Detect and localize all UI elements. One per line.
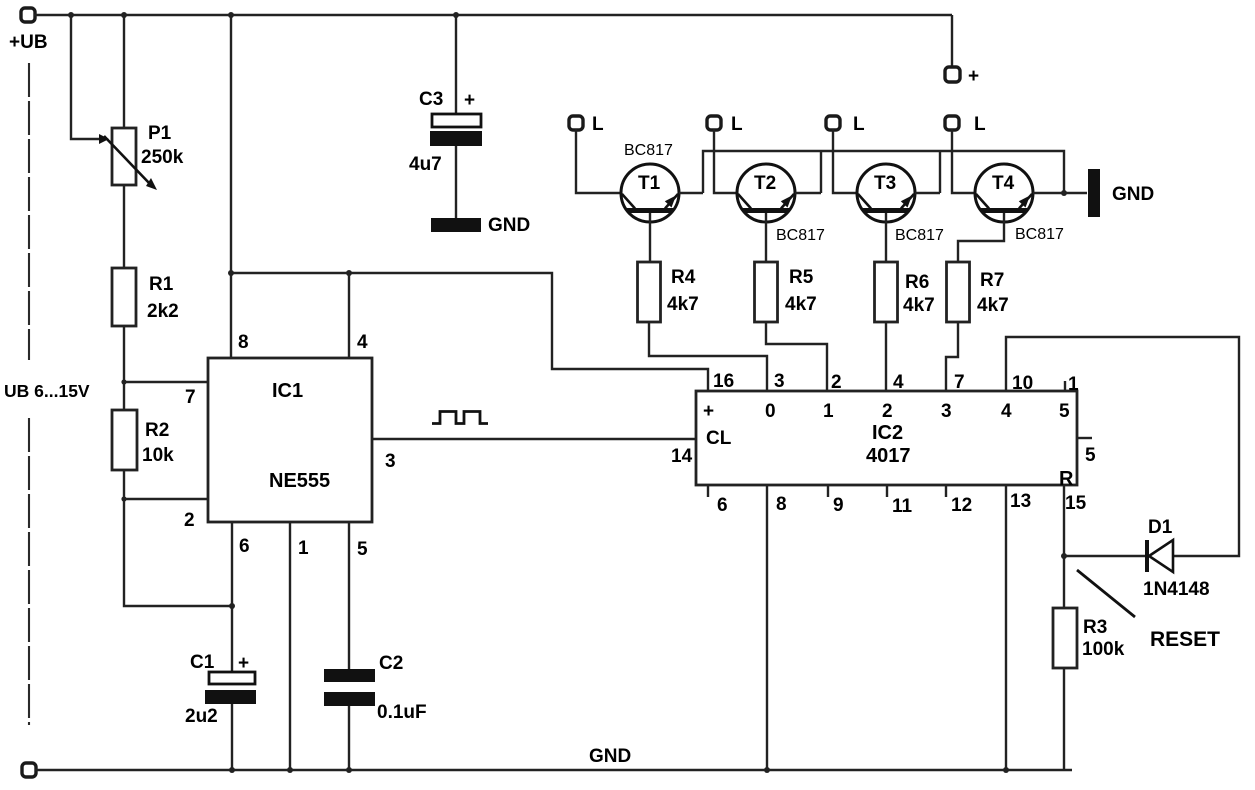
wire supply to IC2 pin 16	[228, 270, 708, 391]
terminal L3	[826, 114, 865, 135]
svg-text:BC817: BC817	[1015, 226, 1064, 243]
svg-text:10: 10	[1012, 373, 1033, 394]
svg-text:+: +	[238, 653, 249, 674]
pin 1 stub IC2	[1064, 381, 1066, 391]
wire pin 1 down to ground rail	[290, 522, 309, 770]
svg-text:P1: P1	[148, 123, 172, 144]
svg-text:9: 9	[833, 495, 844, 516]
terminal + (right)	[945, 66, 979, 87]
svg-text:3: 3	[941, 401, 952, 422]
svg-text:R2: R2	[145, 420, 169, 441]
svg-text:R4: R4	[671, 267, 696, 288]
node junction dots on top rail	[68, 12, 459, 18]
diode D1 1N4148	[1064, 517, 1210, 600]
svg-text:2: 2	[831, 372, 842, 393]
wire P1 to R1	[123, 185, 125, 268]
resistor R3	[1053, 608, 1125, 668]
wire L1 to T1 collector	[576, 129, 621, 193]
wire pin 4 stub	[349, 273, 368, 358]
svg-text:NE555: NE555	[269, 470, 330, 492]
wire top supply rail	[34, 15, 952, 69]
svg-text:4k7: 4k7	[903, 295, 935, 316]
svg-text:BC817: BC817	[624, 142, 673, 159]
svg-text:BC817: BC817	[776, 227, 825, 244]
wire IC2 pin 15 down to R3	[1061, 485, 1067, 608]
node junction dots on ground rail	[229, 767, 1009, 773]
wire T1 emitter	[679, 192, 703, 194]
svg-text:6: 6	[717, 495, 728, 516]
svg-text:R7: R7	[980, 270, 1004, 291]
svg-text:RESET: RESET	[1150, 628, 1220, 651]
IC2 bottom stubs pins 6 9 11 12	[708, 485, 946, 497]
svg-text:3: 3	[774, 371, 785, 392]
svg-text:+: +	[968, 66, 979, 87]
resistor R2	[112, 410, 174, 470]
resistor R1	[112, 268, 179, 326]
wire R2 bottom to pin 2 and pin 6 loop	[121, 470, 235, 609]
capacitor C2 0.1uF	[324, 653, 427, 770]
svg-text:+: +	[703, 401, 714, 422]
wire IC2 pin 13 to ground rail	[1005, 485, 1007, 770]
svg-text:L: L	[731, 114, 743, 135]
resistor R4	[638, 262, 699, 322]
wire emitter bus	[703, 151, 1064, 193]
wire R6 to IC2 pin 4	[885, 322, 887, 391]
wire T3 emitter	[915, 192, 940, 194]
wire R5 to IC2 pin 2	[766, 322, 827, 391]
svg-text:15: 15	[1065, 493, 1087, 514]
svg-text:R3: R3	[1083, 617, 1107, 638]
svg-text:13: 13	[1010, 491, 1031, 512]
svg-text:8: 8	[238, 332, 249, 353]
transistor T4 BC817	[975, 164, 1064, 243]
wire T2 emitter	[795, 192, 821, 194]
svg-text:GND: GND	[488, 215, 530, 236]
transistor T2 BC817	[737, 164, 825, 244]
svg-text:R6: R6	[905, 272, 929, 293]
pin 5 stub right	[1077, 438, 1096, 466]
svg-text:C1: C1	[190, 652, 215, 673]
wire pin 5 down to C2	[349, 522, 368, 669]
svg-text:2k2: 2k2	[147, 301, 179, 322]
wire T4 base jog to R7	[958, 213, 1004, 262]
svg-text:3: 3	[385, 451, 396, 472]
wire L2 to T2 collector	[714, 129, 737, 193]
svg-text:6: 6	[239, 536, 250, 557]
wire T3 base to R6	[885, 213, 887, 262]
terminal +UB	[9, 8, 48, 53]
wire R7 to IC2 pin 7	[946, 322, 958, 391]
terminal bottom	[22, 763, 36, 777]
svg-text:4017: 4017	[866, 445, 911, 467]
wire IC1 pin 3 clock to IC2 CL	[372, 439, 696, 472]
svg-text:R1: R1	[149, 274, 174, 295]
potentiometer P1	[104, 15, 184, 190]
transistor T1 BC817	[621, 142, 679, 222]
svg-text:IC2: IC2	[872, 422, 903, 444]
wire T2 base to R5	[765, 213, 767, 262]
svg-text:4k7: 4k7	[667, 294, 699, 315]
svg-text:4k7: 4k7	[977, 295, 1009, 316]
svg-text:UB 6...15V: UB 6...15V	[4, 381, 90, 401]
wire R4 to IC2 pin 3	[649, 322, 767, 391]
svg-text:0.1uF: 0.1uF	[377, 702, 427, 723]
svg-text:T1: T1	[638, 173, 661, 194]
svg-text:2: 2	[882, 401, 893, 422]
wire pin 8 from top rail	[231, 15, 249, 358]
terminal L2	[707, 114, 743, 135]
svg-text:11: 11	[892, 496, 913, 517]
svg-text:250k: 250k	[141, 147, 184, 168]
terminal L4	[945, 114, 986, 135]
svg-text:GND: GND	[589, 746, 631, 767]
svg-text:4u7: 4u7	[409, 154, 442, 175]
svg-text:+: +	[464, 90, 475, 111]
svg-text:2: 2	[184, 510, 195, 531]
svg-text:100k: 100k	[1082, 639, 1125, 660]
resistor R7	[947, 262, 1009, 322]
svg-text:12: 12	[951, 495, 972, 516]
terminal L1	[569, 114, 604, 135]
svg-text:0: 0	[765, 401, 776, 422]
svg-text:16: 16	[713, 371, 734, 392]
capacitor C3 4u7 (electrolytic)	[409, 15, 482, 218]
svg-text:T3: T3	[874, 173, 896, 194]
svg-text:4: 4	[1001, 401, 1012, 422]
svg-text:GND: GND	[1112, 184, 1154, 205]
svg-text:1: 1	[823, 401, 834, 422]
svg-text:D1: D1	[1148, 517, 1173, 538]
clock waveform symbol	[432, 412, 488, 424]
svg-text:2u2: 2u2	[185, 706, 218, 727]
svg-text:L: L	[853, 114, 865, 135]
svg-text:14: 14	[671, 446, 693, 467]
svg-text:BC817: BC817	[895, 227, 944, 244]
wire R1 to R2 (tee to pin 7)	[121, 326, 208, 410]
svg-text:7: 7	[954, 372, 965, 393]
svg-text:T4: T4	[992, 173, 1015, 194]
svg-text:1: 1	[1068, 374, 1079, 395]
svg-text:+UB: +UB	[9, 32, 48, 53]
wire R3 to ground rail	[1063, 668, 1065, 770]
svg-text:1N4148: 1N4148	[1143, 579, 1210, 600]
capacitor C1 2u2 (electrolytic)	[185, 652, 256, 727]
wire pin 6 down to ground rail	[232, 522, 250, 770]
resistor R5	[755, 262, 817, 322]
wire T1 base to R4	[649, 213, 651, 262]
svg-text:4: 4	[357, 332, 368, 353]
svg-text:5: 5	[1059, 401, 1070, 422]
wire L4 to T4 collector	[952, 129, 975, 193]
wire IC2 pin 10 to diode loop	[1006, 337, 1239, 556]
RESET pointer line	[1077, 570, 1220, 651]
wire P1 wiper branch	[71, 15, 109, 144]
svg-text:R5: R5	[789, 267, 814, 288]
IC IC1 NE555 box	[208, 358, 372, 522]
svg-text:4k7: 4k7	[785, 294, 817, 315]
svg-text:T2: T2	[754, 173, 776, 194]
svg-text:5: 5	[1085, 445, 1096, 466]
transistor T3 BC817	[857, 164, 944, 244]
svg-text:CL: CL	[706, 428, 732, 449]
svg-text:C2: C2	[379, 653, 403, 674]
svg-text:10k: 10k	[142, 445, 174, 466]
wire L3 to T3 collector	[833, 129, 857, 193]
svg-text:1: 1	[298, 538, 309, 559]
IC2 top pin number labels	[713, 371, 1079, 395]
svg-text:4: 4	[893, 372, 904, 393]
svg-text:C3: C3	[419, 89, 443, 110]
wire IC2 pin 8 to ground rail	[766, 485, 768, 770]
IC2 bottom pin number labels	[717, 491, 1087, 517]
svg-text:8: 8	[776, 494, 787, 515]
resistor R6	[875, 262, 935, 322]
svg-text:5: 5	[357, 539, 368, 560]
wire T4 emitter to ground bar	[1033, 190, 1087, 196]
svg-text:L: L	[592, 114, 604, 135]
IC IC2 4017 box	[696, 391, 1077, 490]
ground symbol right	[1088, 169, 1154, 217]
battery dashed line UB	[4, 63, 90, 725]
svg-text:7: 7	[185, 387, 196, 408]
svg-text:R: R	[1059, 468, 1074, 490]
svg-text:L: L	[974, 114, 986, 135]
svg-text:IC1: IC1	[272, 380, 303, 402]
ground symbol under C3	[431, 215, 530, 236]
wire bottom ground rail	[35, 746, 1072, 770]
